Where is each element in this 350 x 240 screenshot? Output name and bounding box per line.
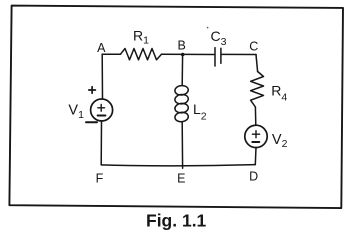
V1 polarity plus (outside) [89,87,96,94]
V2 minus sign [252,141,259,143]
svg-text:C3: C3 [211,28,227,48]
wire L2 to E [181,123,183,169]
svg-text:Fig. 1.1: Fig. 1.1 [146,211,207,231]
svg-text:C: C [249,39,258,53]
svg-text:D: D [249,170,258,184]
svg-text:R1: R1 [133,27,149,46]
node B junction dot [181,53,185,57]
svg-text:E: E [177,172,185,186]
bottom wire D to F [101,165,255,166]
capacitor C3 [215,48,221,66]
resistor R4 [251,72,264,108]
wire V1 to A [101,54,103,99]
V1 plus sign [98,104,105,111]
wire C3 to C corner [222,53,256,55]
wire C down to R4 [256,55,258,72]
resistor R1 [121,49,162,60]
inductor L2 [174,85,188,96]
source V2 circle [245,125,267,147]
svg-text:F: F [96,172,104,186]
wire R4 to V2 [254,107,256,126]
svg-text:A: A [97,41,106,55]
wire A to R1 [102,53,120,55]
wire F up to V1 [100,121,102,165]
svg-text:V1: V1 [68,102,84,121]
wire R1 to C3 [162,53,215,55]
svg-text:L2: L2 [193,101,207,123]
wire B down to L2 [181,54,183,85]
V1 minus sign [98,115,106,117]
speck near C3 [207,27,209,29]
svg-text:B: B [178,38,186,52]
svg-text:R4: R4 [271,82,287,103]
wire V2 to D [254,147,257,164]
V1 polarity minus (outside) [86,121,97,123]
source V1 circle [91,99,113,121]
svg-text:V2: V2 [272,132,288,150]
V2 plus sign [252,131,259,138]
